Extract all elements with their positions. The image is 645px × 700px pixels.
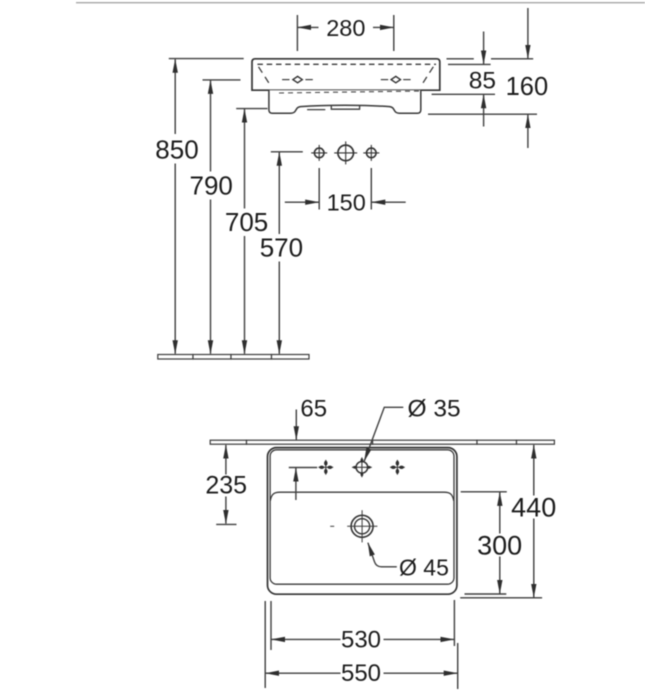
dimension 790 xyxy=(210,80,212,354)
basin bottom extension right long (for 440) xyxy=(460,597,542,599)
ext line basin bottom hidden xyxy=(432,93,495,95)
dimension 705 xyxy=(244,109,246,354)
svg-text:570: 570 xyxy=(260,233,303,263)
drain tab under basin (side view) xyxy=(331,105,359,109)
page top border line xyxy=(76,2,645,3)
deck line extension right (for 300) xyxy=(461,491,507,493)
svg-text:550: 550 xyxy=(341,660,381,687)
dimension 300 xyxy=(499,492,501,593)
svg-text:440: 440 xyxy=(511,492,556,522)
plan tap hole right cross xyxy=(390,460,405,475)
ext line underside xyxy=(236,108,267,110)
basin bottom extension right short (for 300) xyxy=(465,593,507,595)
hidden short line under plateau xyxy=(307,109,325,111)
svg-text:790: 790 xyxy=(190,170,233,200)
tap hole centreline extension (for 65) xyxy=(289,467,317,469)
tap hole detail: right hole xyxy=(363,145,379,161)
drain inner circle xyxy=(355,519,370,534)
ext line fixing holes xyxy=(203,79,241,81)
svg-text:160: 160 xyxy=(506,73,549,101)
wall hatch bar xyxy=(210,440,554,444)
svg-text:65: 65 xyxy=(300,396,327,423)
svg-text:150: 150 xyxy=(327,189,366,215)
dimension 150 xyxy=(285,168,406,210)
floor hatch bar xyxy=(158,355,309,360)
drain crosshair xyxy=(330,510,377,542)
basin outer outline (plan view) xyxy=(268,448,457,595)
plan tap hole left cross xyxy=(318,460,333,475)
dimension 235 xyxy=(225,445,227,524)
dimension 850 xyxy=(174,59,176,354)
dimension 160 xyxy=(527,8,529,148)
dimension 65 xyxy=(295,410,297,501)
svg-text:850: 850 xyxy=(155,135,198,165)
ext line sink underside xyxy=(428,113,537,115)
svg-text:300: 300 xyxy=(477,530,522,560)
svg-text:Ø 45: Ø 45 xyxy=(399,555,449,581)
dimension 440 xyxy=(533,445,535,598)
ext line sink top left xyxy=(169,58,244,60)
basin inner rim (plan view) xyxy=(270,450,454,584)
fixing hole diamond left xyxy=(293,76,302,82)
dimension 550 xyxy=(265,601,458,689)
fixing hole diamond right xyxy=(391,76,400,82)
right inner diagonal dashed xyxy=(421,67,433,86)
right side extension lines xyxy=(428,59,537,114)
basin rim dashed line (side view) xyxy=(257,63,436,65)
svg-text:235: 235 xyxy=(205,472,247,500)
ext line sink top right xyxy=(447,58,474,60)
svg-text:85: 85 xyxy=(469,68,496,95)
svg-text:530: 530 xyxy=(341,626,381,653)
ext line front rim xyxy=(448,63,491,65)
tap hole detail: centre hole xyxy=(334,141,357,164)
ext line tap hole height xyxy=(271,151,303,153)
fixing hole centerline dashes xyxy=(282,79,411,81)
dimension 280 xyxy=(297,15,393,51)
drain outer circle xyxy=(351,515,373,537)
svg-text:Ø 35: Ø 35 xyxy=(408,395,461,422)
dimension 530 xyxy=(271,600,454,650)
tap hole detail: left hole xyxy=(311,145,327,161)
washbasin apron outline (side view) xyxy=(252,59,440,90)
leader line diameter 35 xyxy=(364,407,403,461)
hidden basin bottom dashed line (side view) xyxy=(279,91,420,93)
dimension 85 xyxy=(483,32,485,127)
left extension lines xyxy=(169,59,303,152)
drain centre extension tick (for 235) xyxy=(216,523,236,525)
left inner diagonal dashed xyxy=(259,67,271,86)
washbasin lower body profile (side view) xyxy=(269,90,421,113)
leader line diameter 45 xyxy=(368,543,397,567)
dimension 570 xyxy=(278,152,280,354)
tap deck front edge line xyxy=(270,492,453,501)
svg-text:280: 280 xyxy=(326,15,365,41)
plan tap hole centre xyxy=(352,457,372,477)
